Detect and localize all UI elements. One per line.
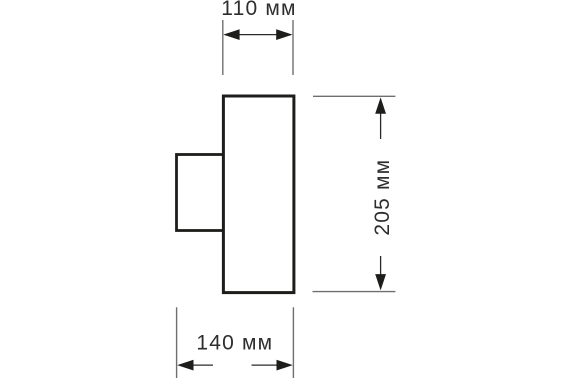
arrowhead top-left — [223, 29, 239, 40]
dimension line right upper segment — [380, 112, 382, 139]
extension line top-right — [292, 20, 294, 75]
dimension line bottom-left segment — [192, 364, 213, 366]
arrowhead bottom-left — [177, 360, 193, 371]
arrowhead right-down — [375, 274, 386, 290]
extension line bottom-left — [176, 307, 178, 378]
small rectangle (wall-mount bracket, left) — [177, 155, 224, 231]
svg-text:110 мм: 110 мм — [221, 0, 296, 20]
dimension line bottom-right segment — [252, 364, 279, 366]
arrowhead top-right — [276, 29, 292, 40]
extension line right-bottom — [313, 291, 396, 293]
arrowhead right-up — [375, 97, 386, 113]
extension line top-left — [222, 20, 224, 75]
dimension line right lower segment — [380, 256, 382, 275]
extension line right-top — [313, 95, 395, 97]
main rectangle (lamp body) — [223, 96, 294, 293]
dimension line top — [225, 34, 291, 36]
svg-text:140 мм: 140 мм — [196, 331, 273, 354]
extension line bottom-right — [292, 307, 294, 378]
svg-text:205 мм: 205 мм — [371, 159, 394, 236]
arrowhead bottom-right — [277, 360, 293, 371]
